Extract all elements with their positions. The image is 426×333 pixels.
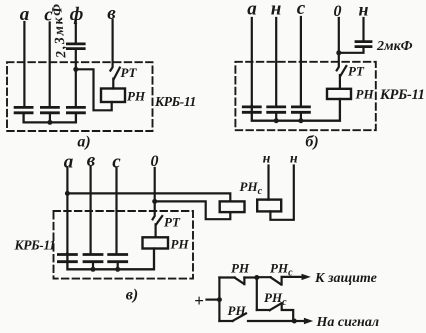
svg-text:РТ: РТ <box>348 64 365 79</box>
capacitor C3 of bank (circuit b) <box>292 107 309 112</box>
svg-text:КРБ-11: КРБ-11 <box>14 238 56 253</box>
node junction on bus (circuit a) <box>47 120 52 125</box>
svg-text:На сигнал: На сигнал <box>316 315 380 330</box>
capacitor C2 of bank (circuit b) <box>268 107 285 112</box>
capacitor C1 of bank (circuit a) <box>15 107 32 112</box>
wire phase a vertical (circuit v) <box>66 168 68 253</box>
svg-text:2мкФ: 2мкФ <box>376 39 413 54</box>
node junction at plus <box>217 297 222 302</box>
wire capacitor 2mkF to 0 wire (circuit b) <box>339 48 364 53</box>
wire middle branch horizontal <box>257 309 270 311</box>
node junction on 0 wire (circuit v) <box>152 199 157 204</box>
wire capacitor C2 to bus (circuit a) <box>49 114 51 122</box>
node junction bottom branch <box>292 319 297 324</box>
svg-text:РН: РН <box>356 87 375 102</box>
svg-text:РТ: РТ <box>164 215 181 230</box>
contact RT blade (circuit b) <box>341 66 347 75</box>
svg-text:2,3мкФ: 2,3мкФ <box>50 2 70 60</box>
wire n right down and under winding 2 <box>270 166 293 220</box>
capacitor C2 of bank (circuit a) <box>41 107 58 112</box>
svg-text:н: н <box>290 152 298 167</box>
node junction C3-bus (circuit v) <box>115 267 120 272</box>
dashed enclosure KRB-11 (circuit b) <box>235 62 375 130</box>
svg-text:РТ: РТ <box>121 65 138 80</box>
wire middle branch down from top junction <box>256 278 258 311</box>
node junction C3-bus (circuit b) <box>298 118 303 123</box>
capacitor 2,3 mkF in phase f <box>67 44 84 49</box>
wire from a junction to RNs coil top <box>67 193 230 201</box>
svg-text:н: н <box>271 0 282 20</box>
node junction on 0 (circuit b) <box>336 50 341 55</box>
wire phase a vertical (circuit a) <box>23 22 25 106</box>
contact RNs (closed) blade top branch <box>271 277 281 284</box>
wire top branch middle <box>244 276 256 278</box>
wire phase v vertical (circuit v) <box>89 167 91 253</box>
wire capacitor C3 to bus (circuit v) <box>117 263 119 269</box>
wire capacitor C2 to bus (circuit b) <box>275 114 277 121</box>
wire 0 down to RT contact (circuit b) <box>337 18 339 70</box>
wire phase c vertical (circuit a) <box>49 23 51 107</box>
svg-text:а): а) <box>77 134 90 151</box>
svg-text:КРБ-11: КРБ-11 <box>379 87 425 103</box>
contact RNs (open) blade middle <box>270 303 282 310</box>
wire RN coil bottom to bus (circuit b) <box>252 99 340 121</box>
svg-text:н: н <box>263 152 271 167</box>
relay coil RN (circuit b) <box>327 89 351 99</box>
svg-text:н: н <box>359 0 369 20</box>
relay coil RNs (winding 2) <box>257 200 281 212</box>
contact RNs fixed tick top branch <box>281 277 283 285</box>
wire phase c vertical (circuit v) <box>115 168 117 253</box>
contact RN (open) blade bottom <box>233 313 246 321</box>
node junction top branch <box>254 275 259 280</box>
capacitor C2 of bank (circuit v) <box>84 255 102 262</box>
wire capacitor C2 to bus (circuit v) <box>92 263 94 269</box>
node junction on a wire (circuit v) <box>65 191 70 196</box>
wire bottom branch left <box>219 320 232 322</box>
capacitor C3 of bank (circuit a) <box>67 107 84 112</box>
wire from 0 junction to RNs coil bottom <box>155 201 231 219</box>
wire n left down to RNs winding 2 <box>267 166 269 200</box>
relay coil RN (circuit a) <box>101 89 125 103</box>
capacitor 2 mkF (circuit b) <box>356 42 371 47</box>
wire to RNs contact <box>257 276 271 278</box>
capacitor C3 of bank (circuit v) <box>109 255 127 262</box>
svg-text:а: а <box>247 0 257 20</box>
wire from plus to junction <box>207 299 220 301</box>
wire RT to RN coil top (circuit v) <box>155 224 157 237</box>
contact RT blade (circuit v) <box>156 216 162 225</box>
contact RT blade (circuit a) <box>114 68 120 79</box>
svg-text:КРБ-11: КРБ-11 <box>154 94 196 109</box>
wire bus under capacitor bank (circuit a) <box>24 114 76 122</box>
svg-text:К защите: К защите <box>314 271 377 286</box>
wire top branch left <box>219 276 234 278</box>
relay coil RN (circuit v) <box>143 237 169 248</box>
wire bottom branch right <box>248 320 294 322</box>
svg-text:РН: РН <box>171 237 190 252</box>
svg-text:РНс: РНс <box>240 179 263 197</box>
wire phase v down to RT contact (circuit a) <box>110 20 112 71</box>
wire 0 down to RT contact (circuit v) <box>153 168 155 219</box>
wire n2 vertical (circuit b) <box>362 18 364 40</box>
svg-text:РН: РН <box>228 303 247 318</box>
svg-text:0: 0 <box>334 3 342 20</box>
wire and arrow to protection <box>282 276 303 278</box>
svg-text:б): б) <box>305 134 318 151</box>
svg-text:РН: РН <box>127 89 146 104</box>
wire capacitor C3 to bus (circuit b) <box>300 114 302 121</box>
node junction on f (circuit a) <box>73 67 78 72</box>
capacitor C1 of bank (circuit v) <box>58 255 76 262</box>
wire from f junction to RN coil bottom (circuit a) <box>76 69 112 110</box>
wire phase f lower segment to capacitor bank (circuit a) <box>75 50 77 106</box>
wire phase c vertical (circuit b) <box>300 17 302 106</box>
contact RNs middle step <box>282 303 294 321</box>
dashed enclosure KRB-11 (circuit a) <box>7 62 153 131</box>
dashed enclosure KRB-11 (circuit v) <box>54 211 194 279</box>
contact RN (closed) blade top branch <box>235 278 244 284</box>
wire RN coil bottom to bus (circuit v) <box>67 249 154 270</box>
wire phase f upper segment (circuit a) <box>75 21 77 43</box>
wire RT to RN coil top (circuit b) <box>339 75 341 89</box>
relay coil RNs (winding 1) <box>220 201 245 212</box>
wire vertical branch splitter <box>218 278 220 322</box>
wire n vertical (circuit b) <box>275 18 277 106</box>
svg-text:РН: РН <box>231 261 250 276</box>
node junction C2-bus (circuit b) <box>274 118 279 123</box>
node junction C2-bus (circuit v) <box>91 267 96 272</box>
wire phase a vertical (circuit b) <box>251 18 253 106</box>
svg-text:а: а <box>64 152 74 173</box>
wire RT to RN coil top (circuit a) <box>112 79 114 89</box>
wire and arrow to signal <box>294 320 305 322</box>
capacitor C1 of bank (circuit b) <box>243 107 260 112</box>
svg-text:+: + <box>194 291 204 310</box>
svg-text:РНс: РНс <box>264 290 287 308</box>
contact RN fixed tick top branch <box>243 278 245 285</box>
svg-text:в): в) <box>126 287 138 304</box>
